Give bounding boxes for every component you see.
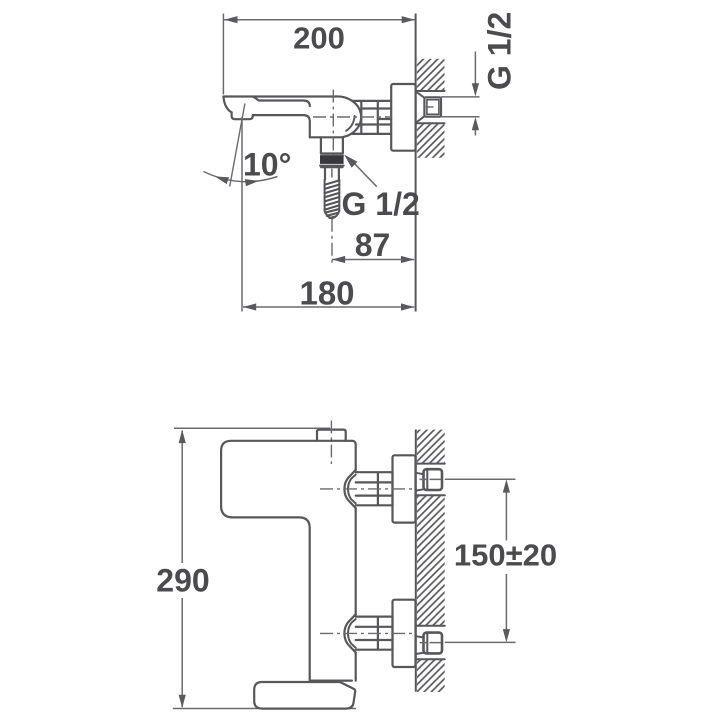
svg-text:10°: 10° [243,146,291,182]
centerline horizontal through body [313,116,392,118]
wall hatch block 3 [417,659,445,692]
290 bottom extension line [173,708,356,710]
svg-text:200: 200 [293,21,345,56]
upper union nut and pipe [356,472,393,505]
body top right corner and right edge upper [352,441,356,470]
wall line (top drawing) [415,14,417,312]
arrowhead 150 bottom [503,629,510,642]
spout underside [253,115,310,137]
centerline vertical through body and outlet [332,90,334,156]
handle body outline [221,441,352,681]
spout aerator lip [232,112,253,119]
wire: 200 dimension line [224,19,415,21]
arrowhead arc right [245,179,259,186]
in-wall connector lower [424,633,443,654]
290 dimension line segments [181,431,183,708]
wall hole edges lower [416,626,445,659]
arrowhead G12 top [472,83,479,96]
lower union nut and pipe [356,617,393,650]
wall hole edges upper [416,464,445,496]
lower flange escutcheon [393,600,416,667]
spout inner top contour [254,97,310,106]
body right cap arc [336,96,361,137]
connector upper taper [416,473,424,491]
wall hatch block 1 [417,430,445,464]
lower union cone inner line [348,619,356,648]
upper flange escutcheon [393,455,416,522]
lower connection centerline [320,632,414,634]
G 1/2 dim tails [474,52,476,136]
in-wall connector upper [424,469,443,490]
arrowhead 200 left [224,16,237,23]
connector upper inner edge [426,471,428,489]
threaded outlet stem [325,180,340,211]
right edge mid segment [355,508,357,614]
spout outline [223,97,335,113]
body bottom edge [310,136,343,138]
150 dimension line segments [505,490,507,630]
in-wall pipe taper [416,91,425,123]
tab centerline [330,421,332,465]
wall line (bottom drawing) [415,430,417,692]
collar bottom washer lines [320,166,344,168]
svg-text:G 1/2: G 1/2 [342,186,420,222]
180 dimension line [243,306,414,308]
arrowhead arc left [215,177,229,185]
in-wall connector square (top drawing) [424,97,441,116]
wall hole edge lines [416,91,445,123]
connector lower inner edge [426,634,428,652]
outlet neck below collar [325,167,339,179]
arrowhead 87 left [332,256,345,263]
wire: extension line left of 200 dim [222,14,224,95]
body inner cap arc detail [346,116,354,131]
pipe extension lines G 1/2 [441,97,480,117]
connector upper centre dash [420,478,442,480]
connector centre dash [426,106,434,108]
arrowhead 290 bottom [179,695,186,708]
angle arc [204,172,278,182]
arrowhead 290 top [179,430,186,443]
upper union cone inner line [348,475,356,504]
thread coil lines [325,180,340,218]
leader line for G 1/2 label [352,161,377,187]
outlet thin line above collar [321,155,343,157]
svg-text:290: 290 [156,563,209,599]
thread rounded tip [325,211,340,219]
wall hatch lower block [417,123,445,158]
extension line lower [445,641,516,643]
87 dimension line [332,259,414,261]
arrowhead G12 bottom [472,117,479,130]
10 deg vertical reference / 180 ext line [241,117,243,312]
dark collar (hose connector nut) [320,156,344,164]
centerline below threads down to 87 dim [331,219,333,264]
arrowhead 150 top [503,479,510,492]
svg-text:87: 87 [355,227,391,263]
upper connection centerline [320,488,414,490]
outlet tube below body [321,137,343,153]
arrowhead 200 right [402,16,415,23]
top tab [317,430,346,441]
arrowhead 180 left [243,303,256,310]
svg-text:180: 180 [299,274,354,311]
svg-text:G 1/2: G 1/2 [482,12,518,90]
290 top extension line [174,427,330,429]
base of fixture [254,682,355,709]
arrowhead 87 right [401,256,414,263]
upper union cone [344,470,355,508]
flange escutcheon (top drawing) [391,84,415,151]
wall hatch block 2 [417,495,445,626]
extension line upper [445,478,516,480]
lower union cone [344,614,355,652]
10 deg slanted reference line [230,104,245,187]
svg-text:150±20: 150±20 [454,537,557,572]
in-wall connector inner square [427,100,439,115]
wall hatch upper block [417,59,445,91]
right edge lower segment [355,653,357,681]
arrowhead leader [344,155,357,168]
arrowhead 180 right [401,303,414,310]
connector lower centre dash [420,642,442,644]
neck centre dash [331,169,333,178]
cartridge neck between body and flange [351,101,391,134]
connector lower taper [416,636,424,654]
